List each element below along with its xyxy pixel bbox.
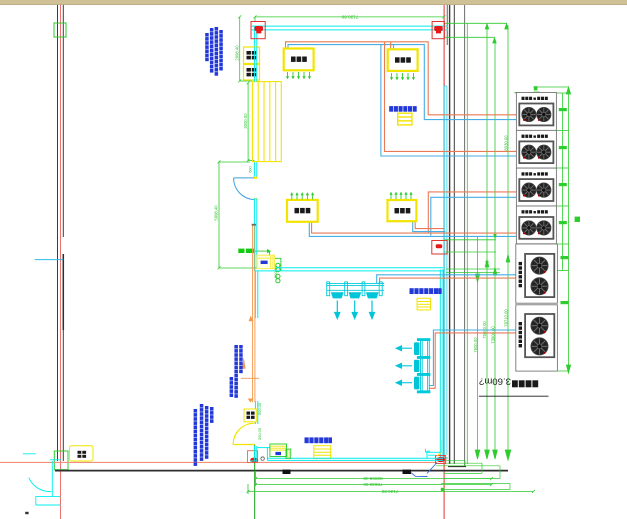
top wall (cyan double) bbox=[251, 26, 448, 30]
column marker top-left bbox=[54, 23, 66, 37]
stacked yellow box 2 bbox=[244, 65, 260, 81]
hatch H3 door grille bbox=[257, 255, 275, 268]
unit1 top tick bbox=[534, 86, 569, 97]
right top dimension line B bbox=[444, 37, 496, 43]
sliding door (orange) bbox=[241, 225, 259, 403]
stack arrows (left) bbox=[396, 346, 412, 385]
sliding door half arrow bbox=[242, 357, 246, 369]
left room wall segment D bbox=[255, 271, 257, 318]
condenser unit U4 bbox=[516, 206, 556, 244]
hatch H4 grille bbox=[314, 446, 331, 459]
left room wall segment F bbox=[250, 446, 257, 461]
green section symbols bbox=[276, 263, 280, 283]
small circle marker bbox=[261, 457, 264, 460]
sliding door top arrow bbox=[249, 316, 254, 321]
box2 text blobs bbox=[247, 68, 257, 76]
bottom dim line 1 bbox=[254, 472, 493, 486]
box C arrows bbox=[290, 192, 314, 199]
green tick unit1 top-left bbox=[515, 92, 521, 94]
svg-text:73900.00: 73900.00 bbox=[491, 326, 496, 344]
axis marker box 3 bbox=[432, 241, 447, 255]
dividing wall (cyan double) bbox=[254, 268, 443, 271]
box D arrows bbox=[389, 192, 412, 199]
pipe pair stack to unit6 bbox=[429, 330, 525, 388]
duct diffuser flaps bbox=[331, 292, 379, 298]
pipe pair from box C/D to unit4 bbox=[309, 222, 519, 237]
top dimension line 7130.80 bbox=[254, 15, 446, 22]
fan coil box B bbox=[388, 49, 418, 71]
dim extension vertical 3 bbox=[493, 39, 498, 459]
svg-text:2998.40: 2998.40 bbox=[234, 45, 239, 61]
condenser unit U3 bbox=[516, 168, 556, 206]
box D label bbox=[395, 208, 411, 213]
H3 blue label bbox=[261, 261, 268, 264]
blue leader at corner bbox=[427, 463, 437, 474]
stair dim vertical 3000 bbox=[247, 81, 255, 162]
door box label bbox=[247, 412, 255, 419]
left wall line gap bbox=[62, 237, 64, 254]
fan coil box D bbox=[388, 200, 417, 221]
blue leader bottom bbox=[411, 473, 428, 477]
door arc upper bbox=[234, 178, 254, 200]
svg-text:82058.40: 82058.40 bbox=[363, 476, 383, 481]
door area dim vertical 5998 bbox=[218, 160, 259, 269]
left top dim vertical 2998 bbox=[238, 15, 252, 82]
right axis line (red) bbox=[443, 5, 445, 519]
box B arrows bbox=[390, 73, 415, 80]
axis marker box 2 bbox=[432, 22, 444, 39]
condenser unit U2 bbox=[516, 130, 556, 168]
svg-text:7600.00: 7600.00 bbox=[473, 337, 478, 353]
fan coil box C bbox=[287, 200, 318, 222]
box B label bbox=[395, 57, 411, 62]
sliding door bottom arrow bbox=[248, 399, 254, 403]
cyan riser at right wall bbox=[444, 86, 447, 455]
wall black marker left bbox=[283, 470, 291, 474]
column marker bottom-left bbox=[54, 451, 68, 470]
bottom dim line 2 bbox=[254, 483, 493, 486]
fan coil box A bbox=[284, 49, 314, 71]
svg-text:7130.80: 7130.80 bbox=[381, 489, 398, 494]
green hatch door marks bbox=[254, 251, 281, 271]
fire box label bbox=[78, 451, 87, 458]
condenser unit U6 bbox=[516, 305, 558, 371]
svg-text:5998.40: 5998.40 bbox=[214, 205, 219, 221]
sliding door top tick bbox=[252, 224, 256, 226]
stack intake blocks bbox=[414, 342, 419, 389]
wall black marker right bbox=[403, 470, 412, 474]
room inner bottom wall (cyan) bbox=[257, 448, 443, 461]
blue note text sliding door bbox=[230, 345, 243, 398]
right wall lines bbox=[447, 5, 464, 466]
svg-text:300.00: 300.00 bbox=[257, 427, 262, 440]
svg-text:7130.80: 7130.80 bbox=[341, 14, 358, 19]
svg-text:3.60m?: 3.60m? bbox=[479, 375, 511, 386]
right inner wall (cyan) bbox=[440, 270, 448, 459]
stack flanges bbox=[417, 338, 431, 393]
svg-text:78930.00: 78930.00 bbox=[363, 482, 383, 487]
condenser unit U1 bbox=[516, 93, 556, 131]
bottom wall bbox=[55, 467, 508, 471]
reserved area text (rotated) bbox=[479, 375, 538, 387]
salmon level line bottom bbox=[0, 461, 437, 463]
yellow door leaf bbox=[233, 444, 254, 446]
yellow stub at wall bbox=[437, 440, 442, 456]
door hinge ticks bbox=[254, 177, 257, 179]
right top dimension line A bbox=[444, 23, 508, 29]
fire hydrant box bottom-left bbox=[70, 446, 94, 461]
H1 blue label bbox=[389, 106, 417, 112]
green node square bbox=[441, 488, 445, 492]
duct assembly arrows bbox=[335, 301, 375, 319]
box A label bbox=[291, 57, 307, 62]
blue note text bottom-left bbox=[194, 404, 214, 466]
box1 text blobs bbox=[247, 51, 257, 59]
top toolbar strip bbox=[0, 0, 627, 5]
left room wall segment C bbox=[254, 198, 256, 271]
underline below reserved text bbox=[479, 395, 549, 397]
green axis vline at door bbox=[254, 445, 256, 519]
left axis line (red) bbox=[60, 5, 62, 519]
svg-text:78710.00: 78710.00 bbox=[504, 309, 509, 327]
hatch H1 grille bbox=[398, 113, 412, 125]
green lines right of axis box 3 bbox=[445, 240, 501, 273]
pipe pair top (supply/return to box A/B and unit1) bbox=[286, 42, 521, 120]
yellow door arc bottom bbox=[233, 423, 254, 444]
blue note text top-left bbox=[205, 27, 223, 76]
stacked yellow box 1 (top-left) bbox=[244, 47, 260, 64]
H2 blue label bbox=[410, 288, 442, 294]
dim extension vertical 1 bbox=[475, 236, 480, 459]
H4 blue label bbox=[305, 437, 333, 443]
box A arrows bbox=[286, 72, 311, 79]
pipe pair unit3 bbox=[428, 192, 519, 236]
bottom-left cyan door arc bbox=[29, 478, 52, 492]
axis marker box 1 bbox=[251, 22, 265, 39]
svg-text:8030.00: 8030.00 bbox=[503, 135, 508, 151]
condenser unit U5 bbox=[516, 244, 558, 303]
extra green arrows mid bbox=[485, 234, 496, 267]
corner cyan ticks bbox=[426, 449, 442, 455]
duct assembly center bbox=[327, 282, 384, 296]
bottom right hook dims bbox=[436, 460, 510, 489]
level mark green bbox=[238, 249, 254, 253]
cyan wall overlay at stacked boxes bbox=[254, 47, 256, 82]
yellow box near door bbox=[244, 409, 256, 422]
black tick bottom-left bbox=[25, 512, 28, 514]
box C label bbox=[295, 208, 311, 213]
green extension line bbox=[466, 23, 468, 464]
unit dim value blobs bbox=[559, 108, 580, 304]
roller door symbol bbox=[270, 444, 291, 458]
unit column right dim line outer bbox=[566, 87, 570, 373]
stair hatch bbox=[252, 82, 281, 162]
door opening leaf bbox=[234, 177, 255, 179]
unit column right dim line inner bbox=[557, 93, 570, 371]
axis marker bottom-right bbox=[436, 456, 446, 464]
left wall lines bbox=[58, 5, 64, 461]
bottom-left cyan lines bbox=[23, 454, 62, 505]
left room wall segment A bbox=[254, 26, 256, 82]
pipe pair unit2 bbox=[381, 42, 519, 156]
axis marker bottom-left of room bbox=[248, 451, 259, 463]
left room wall segment E bbox=[255, 401, 257, 424]
bottom dim line 3 bbox=[247, 484, 536, 494]
hatch H2 grille bbox=[417, 298, 431, 310]
svg-text:3000.00: 3000.00 bbox=[243, 113, 248, 129]
dim extension vertical 2 bbox=[485, 25, 490, 459]
left room wall segment B bbox=[254, 162, 256, 178]
svg-text:600: 600 bbox=[248, 166, 252, 172]
pipe pair duct assembly to unit5 bbox=[377, 275, 525, 283]
cyan stub left bbox=[35, 259, 64, 261]
side duct stack bbox=[421, 339, 430, 393]
dim extension vertical 4 bbox=[505, 25, 511, 460]
